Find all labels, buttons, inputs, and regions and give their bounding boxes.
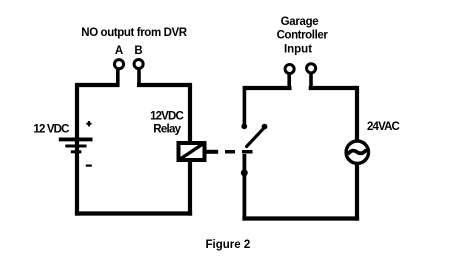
wire: right loop right wire upper (corner to AC source) bbox=[355, 86, 359, 140]
switch S1: lever end dot bbox=[262, 124, 268, 130]
battery B1: 12 VDC source, top plate bbox=[59, 137, 93, 141]
label: battery minus sign bbox=[86, 165, 92, 167]
wire: right loop top wire, right segment bbox=[309, 86, 357, 90]
svg-text:B: B bbox=[134, 45, 142, 57]
svg-text:Garage: Garage bbox=[281, 16, 319, 28]
svg-text:Relay: Relay bbox=[153, 124, 181, 136]
wire: left loop bottom wire bbox=[75, 211, 192, 215]
switch S1: lever (movable contact) bbox=[247, 128, 264, 146]
svg-text:24VAC: 24VAC bbox=[367, 121, 400, 133]
terminal: garage controller input 2 bbox=[307, 64, 316, 73]
wire: left loop right wire upper (corner to relay) bbox=[188, 83, 192, 143]
svg-text:12 VDC: 12 VDC bbox=[33, 124, 69, 136]
svg-text:NO output from DVR: NO output from DVR bbox=[81, 27, 187, 39]
relay coil K1: diagonal bbox=[180, 144, 204, 160]
label: battery plus sign bbox=[86, 121, 91, 126]
wire: right loop left wire upper (to switch contact) bbox=[243, 86, 247, 124]
svg-text:Figure 2: Figure 2 bbox=[206, 239, 251, 251]
battery B1: middle plate bbox=[65, 145, 86, 148]
node B: DVR NO terminal circle bbox=[134, 59, 143, 68]
node A: DVR NO terminal circle bbox=[114, 60, 123, 69]
wire: right loop top wire, left segment bbox=[245, 86, 292, 90]
battery B1: bottom plate bbox=[71, 150, 82, 153]
switch S1: upper fixed contact dot bbox=[241, 123, 247, 129]
svg-text:Controller: Controller bbox=[277, 30, 329, 42]
wire: stub from terminal B down to top wire bbox=[137, 68, 141, 86]
wire: left loop top wire, right segment (B stub to corner) bbox=[137, 83, 190, 87]
wire: stub from garage terminal 2 down to top wire bbox=[309, 73, 313, 90]
wire: left loop right wire lower (relay to corner) bbox=[188, 160, 192, 216]
relay coil K1: rectangle bbox=[179, 143, 205, 160]
wire: relay actuation stub (right of coil) bbox=[207, 150, 219, 154]
wire: dashed mechanical link to switch bbox=[225, 150, 253, 154]
svg-text:A: A bbox=[115, 45, 123, 57]
terminal: garage controller input 1 bbox=[285, 64, 294, 73]
switch S1: lower contact junction dot bbox=[241, 169, 248, 176]
wire: stub from terminal A down to top wire bbox=[116, 68, 120, 86]
wire: right loop bottom wire bbox=[242, 216, 359, 220]
svg-text:12VDC: 12VDC bbox=[150, 111, 183, 123]
AC source V1: 24VAC circle bbox=[346, 141, 368, 163]
wire: right loop left wire lower (below switch) bbox=[242, 154, 246, 221]
wire: left loop top wire, left segment (corner to A stub) bbox=[77, 83, 120, 87]
AC source V1: sine wave bbox=[349, 151, 366, 154]
wire: stub from garage terminal 1 down to top wire bbox=[287, 73, 291, 90]
wire: left loop left wire (through battery) bbox=[75, 83, 79, 216]
svg-text:Input: Input bbox=[284, 44, 312, 56]
wire: right loop right wire lower (AC source to corner) bbox=[355, 164, 359, 221]
